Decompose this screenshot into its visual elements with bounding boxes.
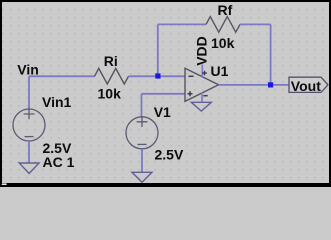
junction at output node — [268, 82, 273, 87]
wire Vin1 top vertical — [28, 76, 30, 110]
svg-text:Rf: Rf — [218, 2, 233, 18]
svg-text:U1: U1 — [211, 63, 229, 79]
op-amp U1 V- pin marker — [203, 95, 207, 97]
wire op-amp output — [219, 84, 289, 86]
voltage source Vin1 minus marker — [25, 136, 34, 138]
net flag Vout — [289, 77, 328, 92]
op-amp U1 non-inverting input marker — [188, 91, 193, 96]
junction at Ri / feedback node — [155, 73, 160, 78]
wire Vin1 bottom vertical — [28, 141, 30, 163]
svg-text:Vout: Vout — [291, 78, 321, 94]
wire V- pin stub — [201, 93, 203, 103]
op-amp U1 inverting input marker — [189, 75, 194, 77]
svg-text:2.5V: 2.5V — [155, 147, 184, 163]
svg-text:10k: 10k — [98, 85, 122, 101]
ground (op-amp) — [191, 102, 211, 111]
voltage source V1 circle — [126, 117, 158, 149]
voltage source Vin1 plus marker — [24, 109, 35, 119]
svg-text:Vin: Vin — [17, 62, 39, 78]
voltage source V1 minus marker — [138, 143, 147, 145]
svg-text:AC 1: AC 1 — [43, 154, 75, 170]
window border frame — [0, 0, 331, 2]
ground (V1) — [132, 172, 152, 182]
wire V1 bottom vertical — [141, 149, 143, 172]
wire V1 top vertical — [141, 94, 143, 118]
wire non-inverting input horizontal — [142, 93, 186, 95]
wire feedback vertical left — [157, 24, 159, 76]
wire VDD pin stub — [201, 65, 203, 78]
svg-text:Vin1: Vin1 — [42, 94, 72, 110]
wire feedback top horizontal — [158, 23, 206, 25]
voltage source Vin1 circle — [13, 109, 45, 141]
svg-text:VDD: VDD — [194, 36, 210, 66]
svg-text:10k: 10k — [211, 35, 235, 51]
svg-text:Ri: Ri — [104, 53, 118, 69]
op-amp U1 triangle — [185, 68, 219, 101]
wire Rf to right corner — [240, 23, 271, 25]
resistor Rf — [206, 17, 240, 33]
wire feedback vertical right — [270, 24, 272, 85]
op-amp U1 V+ pin marker — [202, 71, 207, 76]
wire Vin horizontal to Ri — [29, 75, 95, 77]
voltage source V1 plus marker — [137, 117, 148, 127]
resistor Ri — [95, 68, 129, 84]
ground (Vin1) — [19, 163, 39, 174]
svg-text:V1: V1 — [154, 104, 171, 120]
wire Ri to op-amp inverting input — [129, 75, 186, 77]
